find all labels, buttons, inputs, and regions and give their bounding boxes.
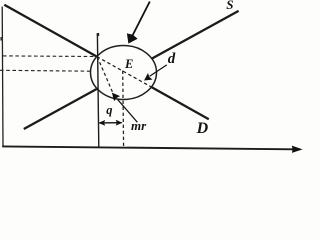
top annotation arrow	[132, 2, 150, 37]
horizontal dashed price line 1 (to equilibrium point)	[3, 55, 97, 58]
demand line D (left solid segment)	[4, 5, 97, 57]
vertical solid quantity line	[97, 34, 98, 149]
demand line D (right solid segment)	[151, 87, 209, 119]
nub at top of vertical line	[97, 33, 99, 36]
mr label pointer arrow	[118, 100, 138, 123]
vertical dashed quantity line q	[122, 71, 125, 149]
label S	[226, 0, 233, 11]
d label pointer arrow	[150, 65, 167, 76]
x-axis	[2, 146, 295, 149]
label E	[125, 58, 133, 71]
supply line S (lower-left solid segment)	[24, 89, 97, 129]
label mr	[131, 119, 146, 132]
horizontal dashed price line 2 (to circle left edge)	[0, 69, 91, 72]
demand line continuation dashed inside circle (firm demand d)	[97, 57, 153, 88]
y-axis	[1, 7, 4, 147]
label d	[168, 52, 176, 67]
label q	[106, 104, 112, 117]
y-axis tick nub	[0, 37, 2, 41]
label D	[197, 121, 209, 137]
magnifier circle	[91, 46, 157, 100]
q measure double arrow	[100, 122, 122, 124]
supply line S (upper-right solid segment)	[152, 11, 239, 59]
x-axis arrowhead	[292, 146, 303, 153]
mr dashed line inside circle	[97, 57, 115, 99]
